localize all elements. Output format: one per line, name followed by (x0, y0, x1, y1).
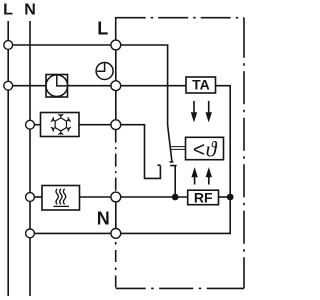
terminal circle device timer (111, 81, 121, 91)
svg-text:TA: TA (192, 77, 210, 93)
arrow up 1 (191, 167, 197, 184)
thermostat box (186, 137, 224, 159)
terminal circle device L (111, 40, 121, 50)
heater (floor heating) box (42, 186, 80, 211)
device border (dash-dot) top (116, 17, 244, 19)
wire row L (y=45) (13, 44, 111, 46)
wire L supply line (7, 21, 9, 296)
contact tick on hook (158, 164, 161, 166)
junction dot TA-RF node (227, 194, 234, 201)
heater symbol wavy lines (54, 189, 70, 207)
terminal circle mains N heater row (26, 193, 35, 202)
device border (dash-dot) left mid segment (115, 130, 117, 193)
switch blade (168, 125, 172, 161)
wire N terminal to right node (121, 200, 230, 233)
svg-text:L: L (3, 2, 13, 19)
wire terminal to TA box (121, 85, 186, 87)
switch fixed contact to RF node (170, 166, 176, 197)
timer clock hands (57, 75, 67, 86)
wire timer box to terminal (68, 85, 111, 87)
arrow down 2 (206, 101, 212, 123)
mechanical link double line (170, 147, 185, 150)
wire row timer (y=85.7) left (13, 85, 46, 87)
small clock hands (97, 63, 104, 71)
svg-text:N: N (97, 208, 110, 228)
svg-text:<ϑ: <ϑ (193, 137, 218, 162)
wire TA box to right drop (216, 86, 231, 194)
timer switch box (46, 75, 68, 98)
wire row heater (y=197) left (35, 196, 42, 198)
arrow up 2 (206, 167, 212, 184)
terminal circle device N (111, 229, 121, 239)
wire snowflake box to terminal (79, 124, 111, 126)
svg-text:RF: RF (194, 189, 213, 205)
device border (dash-dot) bottom (116, 287, 244, 289)
wire terminal bus timer to snowflake (115, 91, 117, 120)
junction dot heater node (172, 194, 179, 201)
device border (dash-dot) right (243, 18, 245, 289)
terminal circle mains L row1 (4, 41, 13, 50)
wire heater box to terminal (80, 196, 111, 198)
wire row snowflake (y=124.7) left (35, 124, 41, 126)
wire terminal bus L to timer (115, 50, 117, 80)
wire heater terminal to RF box (121, 196, 188, 198)
device border corner stub top-left (115, 17, 117, 40)
wire N supply line (29, 21, 31, 296)
svg-text:N: N (24, 2, 36, 19)
terminal circle device snowflake (111, 120, 121, 130)
switch blade tip tick (170, 161, 174, 163)
terminal circle mains L row2 (4, 81, 13, 90)
snowflake symbol (51, 114, 71, 135)
small clock symbol (96, 63, 113, 80)
terminal circle mains N bottom row (26, 229, 35, 238)
terminal circle mains N snowflake row (26, 120, 35, 129)
terminal circle device heater (111, 192, 121, 202)
arrow down 1 (191, 101, 197, 123)
svg-text:L: L (97, 19, 108, 39)
TA box (186, 77, 216, 93)
RF box (188, 190, 219, 205)
wire terminal bus heater to N (115, 202, 117, 228)
wire L terminal to switch (121, 45, 168, 125)
timer clock face (46, 75, 68, 97)
wire row N (y=233.4) left (35, 232, 111, 234)
wire snowflake terminal to hook contact (121, 125, 160, 179)
snowflake box (41, 113, 80, 137)
device border (dash-dot) left bottom segment (115, 239, 117, 289)
wire RF box to right node (219, 196, 231, 198)
